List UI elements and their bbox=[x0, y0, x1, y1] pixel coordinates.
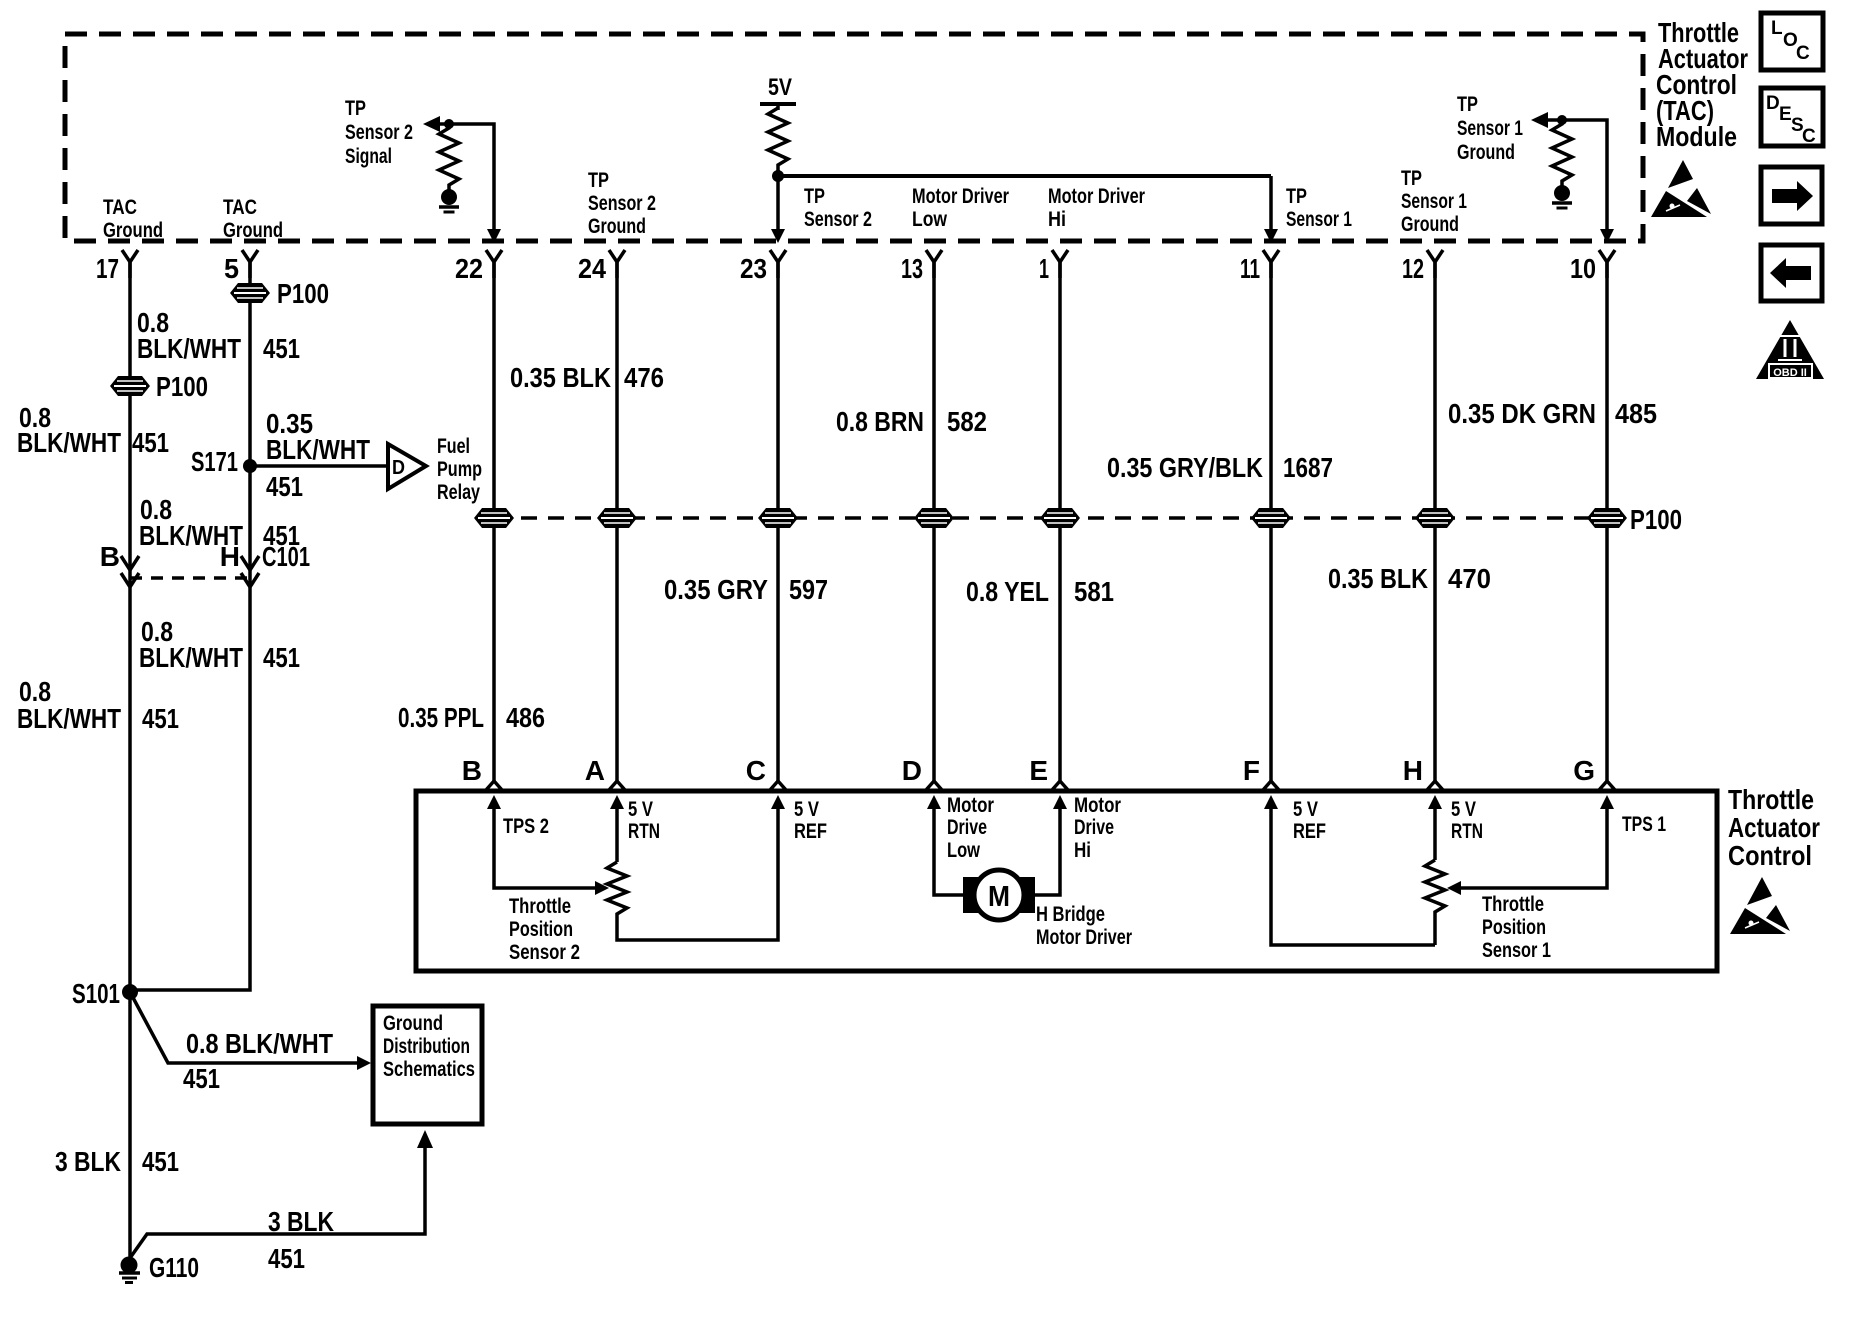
icon DESC box bbox=[1761, 88, 1823, 147]
svg-text:TP: TP bbox=[1286, 185, 1307, 208]
throttle actuator control box bbox=[416, 791, 1717, 971]
svg-text:597: 597 bbox=[789, 574, 828, 605]
svg-text:P100: P100 bbox=[1630, 504, 1682, 535]
connector P100 wire 1 bbox=[1040, 508, 1080, 528]
svg-text:C: C bbox=[746, 755, 766, 786]
svg-text:Hi: Hi bbox=[1074, 839, 1091, 862]
ESD symbol (actuator box) bbox=[1730, 877, 1790, 934]
svg-text:E: E bbox=[1029, 755, 1048, 786]
node letters row B A C D E F H G bbox=[462, 755, 1595, 786]
wire pin23 vertical bbox=[776, 262, 780, 781]
svg-text:TP: TP bbox=[588, 169, 609, 192]
wire pin5 vertical to S101 bbox=[130, 262, 250, 990]
svg-text:11: 11 bbox=[1240, 253, 1260, 284]
pin 5 bbox=[224, 250, 258, 284]
svg-text:0.8 BRN: 0.8 BRN bbox=[836, 406, 924, 437]
wire ground distribution down to G110 bbox=[130, 1130, 433, 1274]
label TP Sensor 2 Signal bbox=[345, 97, 413, 168]
svg-text:0.35 GRY: 0.35 GRY bbox=[664, 574, 768, 605]
icon LOC box bbox=[1761, 13, 1823, 70]
svg-text:C: C bbox=[1796, 43, 1810, 64]
svg-text:Schematics: Schematics bbox=[383, 1058, 475, 1081]
connector P100 wire 22 bbox=[474, 508, 514, 528]
motor M bbox=[963, 870, 1035, 920]
label 0.8 BLK/WHT 451 (wire 17 below C101) bbox=[17, 676, 179, 734]
wire pin13 vertical bbox=[932, 262, 936, 781]
pin E wire to motor bbox=[1035, 794, 1121, 895]
svg-text:BLK/WHT: BLK/WHT bbox=[137, 333, 241, 364]
wire 5V bus to pin 11 bbox=[778, 176, 1278, 243]
label 0.35 BLK 476 (wire 24) bbox=[510, 362, 664, 393]
svg-text:0.35 BLK: 0.35 BLK bbox=[510, 362, 611, 393]
ground internal TP Sensor 1 bbox=[1552, 185, 1572, 208]
label 0.8 BLK/WHT 451 (wire 5 upper) bbox=[137, 307, 300, 364]
label 0.8 BLK/WHT 451 (wire 5 below C101) bbox=[139, 616, 300, 673]
pin A arrow + potentiometer TPS2 bbox=[607, 795, 827, 940]
ground internal TP Sensor 2 bbox=[439, 189, 459, 212]
svg-text:D: D bbox=[392, 457, 405, 479]
svg-text:5 V: 5 V bbox=[1293, 798, 1318, 821]
svg-text:TPS 2: TPS 2 bbox=[503, 815, 549, 838]
svg-text:581: 581 bbox=[1074, 576, 1114, 607]
svg-text:Position: Position bbox=[1482, 916, 1546, 939]
svg-text:C101: C101 bbox=[262, 541, 310, 572]
pin 10 bbox=[1570, 250, 1615, 284]
svg-text:Motor Driver: Motor Driver bbox=[1036, 926, 1132, 949]
label 0.35 GRY/BLK 1687 (wire 11) bbox=[1107, 452, 1333, 483]
wire pin22 vertical bbox=[492, 262, 496, 781]
svg-text:Motor Driver: Motor Driver bbox=[912, 185, 1009, 208]
connector P100 wire 10 bbox=[1587, 508, 1627, 528]
svg-text:RTN: RTN bbox=[1451, 820, 1483, 843]
svg-text:P100: P100 bbox=[156, 371, 208, 402]
label 0.35 DK GRN 485 (wire 10) bbox=[1448, 398, 1657, 429]
svg-text:P100: P100 bbox=[277, 278, 329, 309]
label 0.8 BRN 582 (wire 13) bbox=[836, 406, 987, 437]
svg-text:Sensor 1: Sensor 1 bbox=[1457, 117, 1523, 140]
svg-text:TP: TP bbox=[804, 185, 825, 208]
wire pin24 vertical bbox=[615, 262, 619, 781]
svg-text:TAC: TAC bbox=[103, 196, 137, 219]
svg-text:3 BLK: 3 BLK bbox=[55, 1146, 121, 1177]
connector skirts at box top bbox=[486, 781, 1615, 790]
svg-text:B: B bbox=[100, 541, 120, 572]
svg-text:451: 451 bbox=[132, 427, 169, 458]
svg-text:H: H bbox=[220, 541, 240, 572]
svg-text:Control: Control bbox=[1728, 840, 1812, 871]
svg-text:5 V: 5 V bbox=[628, 798, 653, 821]
svg-text:BLK/WHT: BLK/WHT bbox=[17, 703, 121, 734]
pin D wire to motor bbox=[927, 794, 994, 895]
svg-text:Low: Low bbox=[912, 208, 948, 231]
label Throttle Position Sensor 1 bbox=[1482, 893, 1551, 962]
pin 13 bbox=[901, 250, 942, 284]
svg-text:Module: Module bbox=[1656, 121, 1737, 152]
fuel pump relay symbol D bbox=[388, 444, 426, 489]
svg-text:B: B bbox=[462, 755, 482, 786]
label TP Sensor 1 Ground (pin 12) bbox=[1401, 167, 1467, 236]
svg-text:17: 17 bbox=[96, 253, 119, 284]
connector P100 wire 24 bbox=[597, 508, 637, 528]
svg-text:RTN: RTN bbox=[628, 820, 660, 843]
label Throttle Actuator Control (box) bbox=[1728, 784, 1820, 871]
svg-text:Sensor 2: Sensor 2 bbox=[509, 941, 580, 964]
wire S171 to fuel pump relay bbox=[250, 464, 388, 468]
svg-text:S101: S101 bbox=[72, 978, 120, 1009]
svg-text:Ground: Ground bbox=[383, 1012, 443, 1035]
svg-text:REF: REF bbox=[794, 820, 827, 843]
label 0.35 GRY 597 (wire 23) bbox=[664, 574, 828, 605]
connector P100 wire 23 bbox=[758, 508, 798, 528]
svg-text:BLK/WHT: BLK/WHT bbox=[17, 427, 121, 458]
svg-text:TP: TP bbox=[1401, 167, 1422, 190]
svg-text:451: 451 bbox=[142, 703, 179, 734]
pin 12 bbox=[1402, 250, 1443, 284]
wire TP Sensor 2 Signal internal bbox=[423, 116, 501, 243]
connector P100 on wire 17 bbox=[110, 371, 208, 402]
svg-text:TPS 1: TPS 1 bbox=[1622, 813, 1666, 836]
icon arrow right box bbox=[1761, 167, 1822, 224]
node S101 bbox=[72, 978, 138, 1009]
wire pin12 vertical bbox=[1433, 262, 1437, 781]
label 0.35 PPL 486 (wire 22) bbox=[398, 702, 545, 733]
pin 24 bbox=[578, 250, 625, 284]
svg-text:TAC: TAC bbox=[223, 196, 257, 219]
svg-text:470: 470 bbox=[1448, 563, 1491, 594]
svg-text:Drive: Drive bbox=[947, 816, 987, 839]
svg-text:Sensor 2: Sensor 2 bbox=[804, 208, 872, 231]
ground distribution schematics box bbox=[373, 1006, 482, 1124]
ground G110 bbox=[119, 1252, 199, 1283]
svg-text:22: 22 bbox=[455, 253, 483, 284]
svg-text:1: 1 bbox=[1039, 253, 1049, 284]
svg-text:TP: TP bbox=[1457, 93, 1478, 116]
label Motor Driver Hi bbox=[1048, 185, 1145, 231]
svg-text:13: 13 bbox=[901, 253, 923, 284]
svg-text:Low: Low bbox=[947, 839, 981, 862]
node B / H / C101 labels bbox=[100, 541, 310, 572]
svg-text:TP: TP bbox=[345, 97, 366, 120]
label 0.35 BLK 470 (wire 12) bbox=[1328, 563, 1491, 594]
svg-text:BLK/WHT: BLK/WHT bbox=[266, 434, 370, 465]
svg-text:451: 451 bbox=[142, 1146, 179, 1177]
node S171 bbox=[191, 446, 257, 477]
resistor internal TP Sensor 1 pull bbox=[1552, 120, 1572, 186]
svg-text:485: 485 bbox=[1615, 398, 1657, 429]
svg-text:A: A bbox=[585, 755, 605, 786]
label TP Sensor 2 Ground bbox=[588, 169, 656, 238]
svg-text:Throttle: Throttle bbox=[1482, 893, 1544, 916]
svg-text:Throttle: Throttle bbox=[509, 895, 571, 918]
svg-text:Relay: Relay bbox=[437, 481, 480, 504]
svg-text:H: H bbox=[1403, 755, 1423, 786]
label TP Sensor 2 (pin 23) bbox=[804, 185, 872, 231]
svg-text:L: L bbox=[1771, 18, 1783, 39]
P100 main dashed line bbox=[494, 504, 1682, 535]
label TP Sensor 1 Ground (pin 10) bbox=[1457, 93, 1523, 164]
svg-text:C: C bbox=[1802, 126, 1816, 147]
svg-text:S171: S171 bbox=[191, 446, 238, 477]
wire 5V bus to pin 23 bbox=[771, 170, 785, 243]
svg-text:12: 12 bbox=[1402, 253, 1424, 284]
icon arrow left box bbox=[1761, 245, 1822, 301]
label 0.8 YEL 581 (wire 1) bbox=[966, 576, 1114, 607]
wire TP Sensor 1 Ground internal bbox=[1531, 112, 1614, 243]
connector chevrons C101 wire 17 bbox=[121, 556, 139, 587]
svg-text:M: M bbox=[988, 881, 1010, 913]
svg-text:Actuator: Actuator bbox=[1728, 812, 1820, 843]
svg-text:5: 5 bbox=[224, 253, 239, 284]
svg-text:E: E bbox=[1779, 104, 1792, 125]
wire pin17 vertical bbox=[128, 262, 132, 1258]
svg-text:Ground: Ground bbox=[103, 219, 163, 242]
pin 11 bbox=[1240, 250, 1279, 284]
pin 1 bbox=[1039, 250, 1068, 284]
label 0.8 BLK/WHT 451 (wire 5 below S171) bbox=[139, 494, 300, 551]
svg-text:D: D bbox=[902, 755, 922, 786]
connector P100 wire 12 bbox=[1415, 508, 1455, 528]
connector P100 wire 11 bbox=[1251, 508, 1291, 528]
svg-text:5V: 5V bbox=[768, 74, 792, 101]
svg-text:0.35 GRY/BLK: 0.35 GRY/BLK bbox=[1107, 452, 1263, 483]
pin B arrow inside box bbox=[487, 795, 609, 895]
svg-text:Fuel: Fuel bbox=[437, 435, 470, 458]
svg-text:Ground: Ground bbox=[223, 219, 283, 242]
svg-text:G: G bbox=[1573, 755, 1595, 786]
label Fuel Pump Relay bbox=[437, 435, 482, 504]
svg-text:0.8 YEL: 0.8 YEL bbox=[966, 576, 1049, 607]
svg-text:Motor: Motor bbox=[1074, 794, 1121, 817]
svg-text:451: 451 bbox=[263, 642, 300, 673]
wire S101 to ground distribution bbox=[130, 992, 371, 1094]
svg-text:451: 451 bbox=[266, 471, 303, 502]
svg-text:Sensor 1: Sensor 1 bbox=[1401, 190, 1467, 213]
pin 23 bbox=[740, 250, 786, 284]
wire pin11 vertical bbox=[1269, 262, 1273, 781]
svg-text:Ground: Ground bbox=[588, 215, 646, 238]
svg-text:23: 23 bbox=[740, 253, 767, 284]
label 3 BLK 451 (main ground wire) bbox=[55, 1146, 179, 1177]
connector P100 on wire 5 bbox=[230, 278, 329, 309]
svg-text:Pump: Pump bbox=[437, 458, 482, 481]
5V supply bbox=[760, 74, 796, 110]
svg-text:Ground: Ground bbox=[1401, 213, 1459, 236]
label TAC Ground (pin 17) bbox=[103, 196, 163, 242]
svg-text:F: F bbox=[1243, 755, 1260, 786]
svg-text:Ground: Ground bbox=[1457, 141, 1515, 164]
wire pin1 vertical bbox=[1058, 262, 1062, 781]
svg-text:H Bridge: H Bridge bbox=[1036, 903, 1105, 926]
svg-text:5 V: 5 V bbox=[794, 798, 819, 821]
pin G wire + wiper arrow bbox=[1447, 795, 1666, 895]
label 0.35 BLK/WHT 451 bbox=[266, 408, 370, 502]
pin 17 bbox=[96, 250, 138, 284]
resistor internal TP Sensor 2 pull bbox=[439, 124, 459, 190]
svg-text:486: 486 bbox=[506, 702, 545, 733]
connector P100 wire 13 bbox=[914, 508, 954, 528]
svg-text:451: 451 bbox=[268, 1243, 305, 1274]
svg-text:5 V: 5 V bbox=[1451, 798, 1476, 821]
svg-text:Position: Position bbox=[509, 918, 573, 941]
svg-text:0.35 DK GRN: 0.35 DK GRN bbox=[1448, 398, 1596, 429]
label H Bridge Motor Driver bbox=[1036, 903, 1132, 949]
svg-text:476: 476 bbox=[624, 362, 664, 393]
svg-text:Sensor 2: Sensor 2 bbox=[588, 192, 656, 215]
svg-text:Motor Driver: Motor Driver bbox=[1048, 185, 1145, 208]
svg-text:10: 10 bbox=[1570, 253, 1596, 284]
connector chevrons C101 wire 5 bbox=[241, 556, 259, 587]
svg-text:451: 451 bbox=[263, 333, 300, 364]
svg-text:0.8 BLK/WHT: 0.8 BLK/WHT bbox=[186, 1028, 333, 1059]
label TAC Ground (pin 5) bbox=[223, 196, 283, 242]
connector C101 dashed line bbox=[130, 576, 250, 580]
pin 22 bbox=[455, 250, 502, 284]
svg-text:Throttle: Throttle bbox=[1728, 784, 1814, 815]
svg-text:REF: REF bbox=[1293, 820, 1326, 843]
label Motor Driver Low bbox=[912, 185, 1009, 231]
pin H arrow + potentiometer TPS1 bbox=[1425, 795, 1483, 945]
label TP Sensor 1 (pin 11) bbox=[1286, 185, 1352, 231]
svg-text:G110: G110 bbox=[149, 1252, 199, 1283]
svg-text:0.35 PPL: 0.35 PPL bbox=[398, 702, 484, 733]
svg-text:Sensor 2: Sensor 2 bbox=[345, 121, 413, 144]
wire pin10 vertical bbox=[1605, 262, 1609, 781]
svg-text:Signal: Signal bbox=[345, 145, 392, 168]
svg-text:0.35 BLK: 0.35 BLK bbox=[1328, 563, 1428, 594]
svg-text:Motor: Motor bbox=[947, 794, 994, 817]
svg-text:OBD II: OBD II bbox=[1773, 367, 1807, 379]
svg-text:1687: 1687 bbox=[1283, 452, 1333, 483]
svg-text:24: 24 bbox=[578, 253, 606, 284]
ESD symbol (module) bbox=[1651, 160, 1711, 217]
label Throttle Actuator Control (TAC) Module bbox=[1656, 17, 1748, 152]
svg-text:582: 582 bbox=[947, 406, 987, 437]
svg-text:D: D bbox=[1766, 93, 1780, 114]
svg-text:451: 451 bbox=[183, 1063, 220, 1094]
resistor 5V pull-up bbox=[768, 108, 788, 176]
label 0.8 BLK/WHT 451 (wire 17 upper) bbox=[17, 402, 169, 458]
svg-text:3 BLK: 3 BLK bbox=[268, 1206, 334, 1237]
svg-text:BLK/WHT: BLK/WHT bbox=[139, 642, 243, 673]
label Throttle Position Sensor 2 bbox=[509, 895, 580, 964]
icon OBD II triangle bbox=[1756, 320, 1824, 379]
TAC module box (dashed) bbox=[65, 34, 1643, 241]
node 5V junction bbox=[772, 170, 784, 182]
pin F arrow + wire bbox=[1264, 795, 1435, 945]
svg-text:Sensor 1: Sensor 1 bbox=[1482, 939, 1551, 962]
svg-text:Drive: Drive bbox=[1074, 816, 1114, 839]
svg-text:Hi: Hi bbox=[1048, 208, 1066, 231]
svg-text:Distribution: Distribution bbox=[383, 1035, 470, 1058]
svg-text:Sensor 1: Sensor 1 bbox=[1286, 208, 1352, 231]
